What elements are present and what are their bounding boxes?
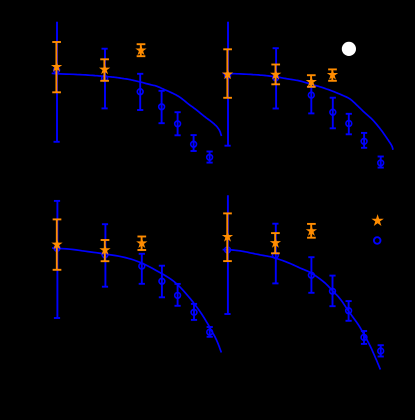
blue circle point top-left #3 <box>175 112 181 135</box>
blue circle point bottom-right #3 <box>346 301 352 321</box>
blue circle point top-right #4 <box>361 133 367 148</box>
blue circle point top-right #2 <box>330 98 336 129</box>
orange star point top-left #2 <box>100 59 109 81</box>
blue circle point top-right #5 <box>378 157 384 168</box>
blue circle point top-left #4 <box>191 135 197 151</box>
legend orange star marker <box>373 216 382 225</box>
orange star point top-left #1 <box>52 42 61 92</box>
blue errorbar bottom-left point 1 <box>54 201 60 318</box>
orange star point bottom-left #1 <box>53 219 62 269</box>
blue errorbar bottom-left point 2 <box>102 224 108 287</box>
model curve bottom-right panel <box>223 250 381 370</box>
blue circle point bottom-left #2 <box>159 266 165 298</box>
white filled circle marker top-right panel <box>342 42 356 56</box>
blue errorbar bottom-right point 1 <box>224 195 230 314</box>
blue circle point bottom-left #1 <box>139 254 145 284</box>
blue circle point top-right #1 <box>308 87 314 113</box>
orange star point top-left #3 <box>137 44 146 56</box>
orange star point top-right #3 <box>307 75 316 87</box>
blue circle point bottom-left #4 <box>191 304 197 320</box>
orange star point top-right #4 <box>328 69 337 80</box>
orange star point top-right #1 <box>223 49 232 98</box>
blue circle point bottom-left #5 <box>207 327 213 337</box>
model curve top-right panel <box>223 73 394 149</box>
orange star point bottom-left #3 <box>137 237 146 251</box>
blue circle point bottom-right #5 <box>378 345 384 356</box>
orange star point bottom-right #2 <box>271 233 280 253</box>
blue circle point top-left #1 <box>137 74 143 110</box>
orange star point top-right #2 <box>271 65 280 85</box>
blue errorbar bottom-right point 2 <box>272 224 278 284</box>
orange star point bottom-right #1 <box>223 213 232 261</box>
blue circle point bottom-right #4 <box>361 331 367 344</box>
model curve bottom-left panel <box>52 248 221 353</box>
model curve top-left panel <box>52 73 222 136</box>
orange star point bottom-left #2 <box>101 240 110 261</box>
blue circle point top-right #3 <box>346 114 352 135</box>
blue circle point top-left #2 <box>159 91 165 123</box>
blue errorbar top-left point 1 <box>54 22 60 142</box>
blue errorbar top-left point 2 <box>102 49 108 109</box>
legend blue open circle marker <box>374 237 381 244</box>
blue circle point bottom-left #3 <box>175 284 181 306</box>
blue errorbar top-right point 1 <box>225 22 231 146</box>
blue circle point top-left #5 <box>207 152 213 163</box>
blue circle point bottom-right #2 <box>329 276 335 307</box>
orange star point bottom-right #3 <box>307 224 316 238</box>
blue errorbar top-right point 2 <box>273 48 279 108</box>
blue circle point bottom-right #1 <box>308 257 314 293</box>
